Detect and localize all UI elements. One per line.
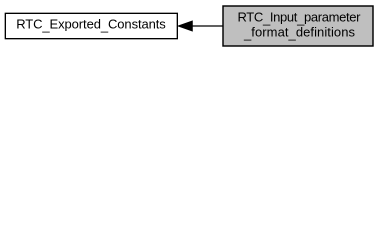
svg-text:RTC_Exported_Constants: RTC_Exported_Constants	[16, 16, 166, 33]
svg-text:RTC_Input_parameter: RTC_Input_parameter	[238, 9, 362, 26]
svg-text:_format_definitions: _format_definitions	[243, 25, 356, 42]
